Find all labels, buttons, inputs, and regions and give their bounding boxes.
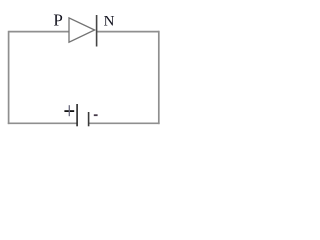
diode D1 triangle (anode): [69, 18, 95, 42]
wire: right vertical: [158, 31, 160, 124]
wire: bottom-right segment: [89, 122, 160, 124]
svg-text:P: P: [53, 10, 62, 29]
battery positive plate (long): [76, 104, 78, 126]
label + (plus sign): [64, 110, 74, 112]
wire: top-right segment: [96, 31, 159, 33]
label - (minus sign): [94, 114, 98, 116]
wire: bottom-left segment: [8, 122, 77, 124]
svg-text:N: N: [104, 13, 115, 29]
battery negative plate (short): [88, 112, 90, 126]
diode D1 cathode bar: [96, 15, 98, 47]
wire: top-left segment: [9, 31, 69, 33]
wire: left vertical: [8, 31, 10, 124]
